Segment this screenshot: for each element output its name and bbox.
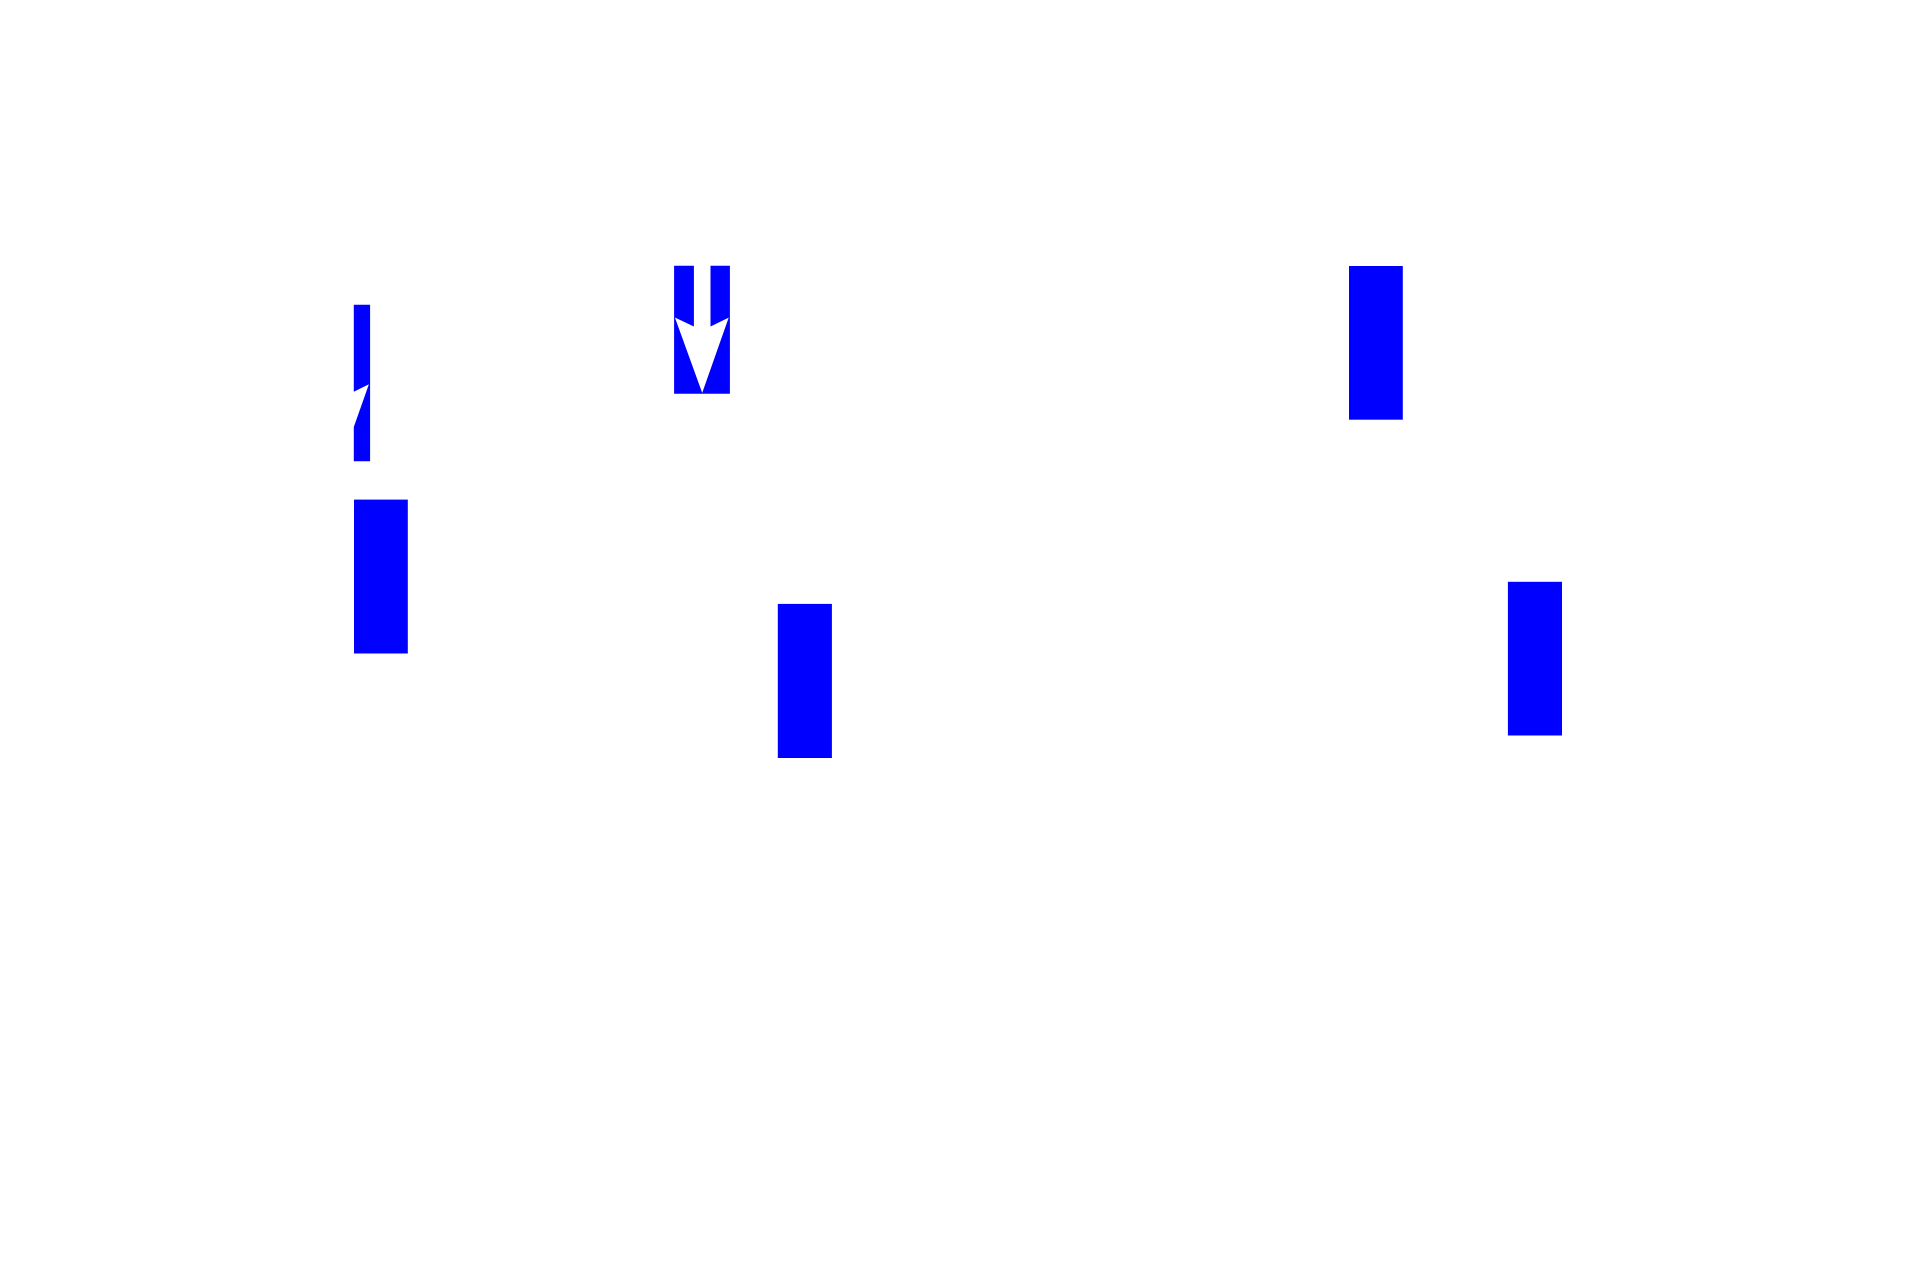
- solid blue rectangle top right: [1349, 266, 1403, 420]
- blue block with white down-arrow cutout: [674, 266, 730, 394]
- solid blue rectangle mid center: [778, 604, 832, 758]
- clipped blue bar with white wedge notch: [354, 305, 370, 461]
- solid blue rectangle mid right: [1508, 582, 1562, 736]
- solid blue rectangle mid left: [354, 500, 408, 654]
